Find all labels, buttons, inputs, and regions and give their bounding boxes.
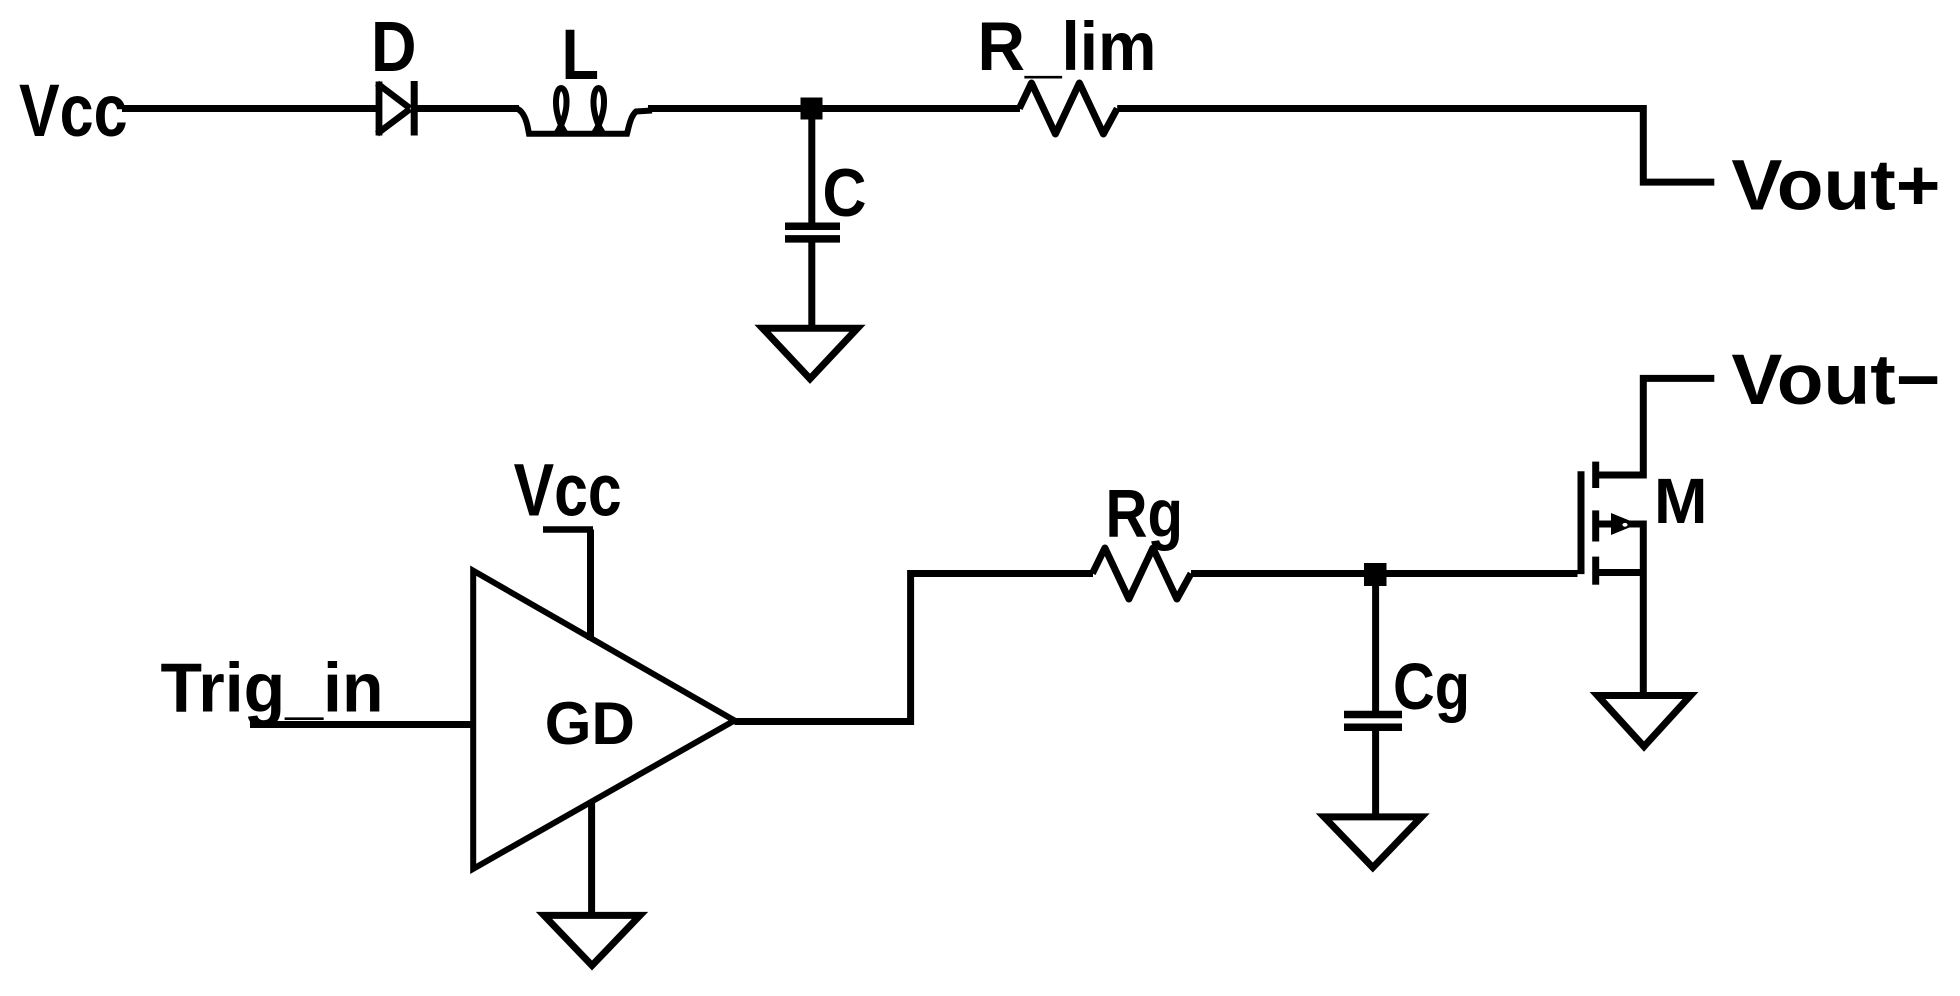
wire inductor to node xyxy=(648,105,1020,112)
wire capacitor C to ground xyxy=(808,242,815,330)
svg-text:R_lim: R_lim xyxy=(978,8,1157,85)
svg-text:Rg: Rg xyxy=(1106,475,1184,551)
resistor Rg xyxy=(1092,548,1191,599)
ground (below Cg) xyxy=(1324,817,1422,868)
junction node (L / C / R_lim) xyxy=(801,98,823,120)
wire junction to capacitor Cg xyxy=(1372,580,1379,711)
capacitor Cg xyxy=(1344,715,1402,728)
transistor M (NMOS) xyxy=(1581,462,1643,696)
svg-text:Vout−: Vout− xyxy=(1731,340,1940,420)
wire diode cathode to inductor xyxy=(414,105,519,112)
ground (below C) xyxy=(763,328,858,379)
diode D xyxy=(377,81,414,136)
wire node to capacitor C xyxy=(808,115,815,223)
ground (below GD) xyxy=(544,915,640,965)
amplifier GD (gate driver) xyxy=(473,571,734,869)
ground (below MOSFET source) xyxy=(1598,696,1691,747)
svg-text:Vcc: Vcc xyxy=(514,448,622,531)
svg-text:Cg: Cg xyxy=(1393,649,1470,723)
wire Vcc stub to GD xyxy=(543,530,593,641)
resistor R_lim xyxy=(1019,83,1117,134)
svg-text:D: D xyxy=(371,8,417,87)
svg-text:M: M xyxy=(1654,465,1708,537)
wire capacitor Cg to ground xyxy=(1372,730,1379,818)
wire R_lim to Vout+ stub xyxy=(1117,109,1714,183)
svg-text:Trig_in: Trig_in xyxy=(161,649,384,727)
capacitor C xyxy=(785,226,840,239)
junction node (Rg / Cg / gate) xyxy=(1364,563,1387,586)
svg-text:GD: GD xyxy=(545,690,635,757)
wire Vcc to diode anode xyxy=(122,105,377,112)
svg-text:Vcc: Vcc xyxy=(19,69,128,152)
wire GD output to Rg xyxy=(735,574,1094,722)
wire Rg to MOSFET gate xyxy=(1191,570,1578,577)
wire GD to ground xyxy=(588,802,595,917)
svg-text:C: C xyxy=(823,155,867,231)
svg-text:L: L xyxy=(562,16,600,95)
inductor L xyxy=(516,88,652,134)
svg-text:Vout+: Vout+ xyxy=(1731,145,1940,225)
wire Vout- stub to MOSFET drain xyxy=(1599,378,1714,475)
wire Trig_in to GD input xyxy=(250,721,476,728)
